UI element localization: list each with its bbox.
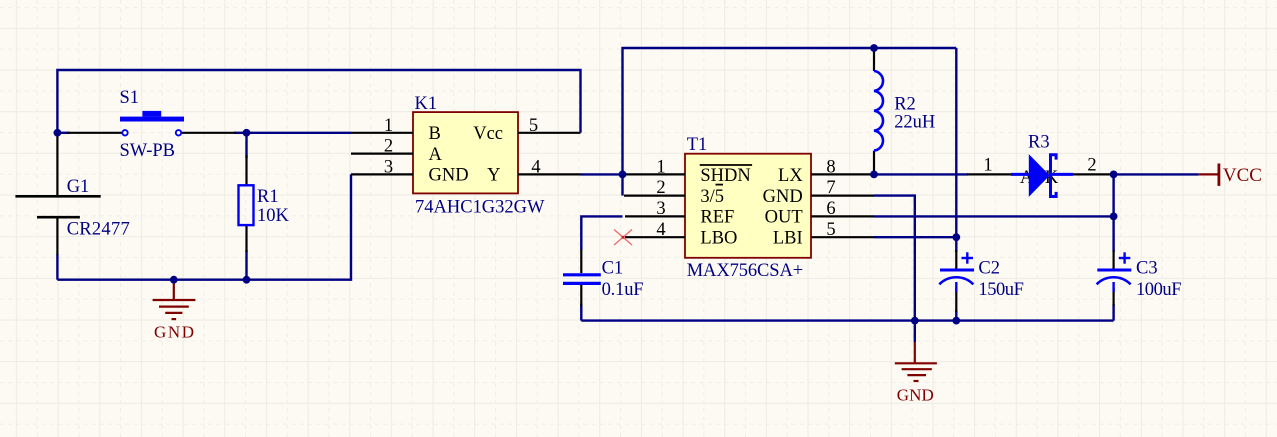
svg-text:SHDN: SHDN bbox=[700, 166, 750, 186]
no-ERC marker on T1 pin 4 bbox=[614, 230, 632, 246]
svg-text:REF: REF bbox=[700, 208, 734, 228]
svg-text:2: 2 bbox=[656, 178, 665, 198]
battery G1 pin top bbox=[56, 134, 58, 195]
diode R3 cathode bar with schottky hooks bbox=[1051, 155, 1057, 197]
svg-text:S1: S1 bbox=[120, 88, 140, 108]
capacitor C2 stub below arc bbox=[955, 282, 957, 292]
svg-text:SW-PB: SW-PB bbox=[120, 141, 176, 161]
svg-text:LBI: LBI bbox=[773, 229, 803, 249]
svg-text:6: 6 bbox=[826, 199, 835, 219]
svg-text:22uH: 22uH bbox=[894, 113, 935, 133]
power port VCC bar bbox=[1199, 173, 1219, 175]
diode R3 pin 2 (cathode) bbox=[1050, 173, 1114, 175]
diode R3 pin 1 (anode) bbox=[967, 173, 1029, 175]
inductor R2 pin bottom bbox=[873, 151, 875, 175]
svg-text:3/5: 3/5 bbox=[700, 187, 724, 207]
wire C1 top from REF row bbox=[581, 216, 622, 250]
svg-text:2: 2 bbox=[384, 137, 393, 157]
wire C2 bottom to rail bbox=[955, 310, 957, 321]
switch S1 pins bbox=[67, 132, 122, 134]
svg-text:74AHC1G32GW: 74AHC1G32GW bbox=[415, 197, 545, 217]
IC T1 pin 4 bbox=[625, 236, 685, 238]
junction dot SHDN bbox=[619, 171, 627, 179]
svg-text:T1: T1 bbox=[687, 135, 708, 155]
capacitor C3 pin bottom bbox=[1112, 288, 1114, 306]
IC K1 pin 4 bbox=[518, 173, 581, 175]
capacitor C3 plus sign bbox=[1119, 257, 1131, 259]
svg-text:R2: R2 bbox=[894, 95, 916, 115]
capacitor C2 plus sign bbox=[962, 257, 974, 259]
IC T1 pin 1 bbox=[624, 173, 685, 175]
IC T1 pin 6 bbox=[811, 215, 874, 217]
svg-text:1: 1 bbox=[656, 157, 665, 177]
capacitor C3 top plate bbox=[1097, 269, 1131, 272]
junction dot diode cathode bbox=[1110, 171, 1118, 179]
junction dot GND1 bbox=[170, 276, 178, 284]
IC T1 pin 7 bbox=[811, 195, 874, 197]
svg-text:GND: GND bbox=[763, 187, 803, 207]
IC T1 pin 2 bbox=[624, 195, 685, 197]
inductor R2 pin top bbox=[873, 48, 875, 71]
svg-text:GND: GND bbox=[897, 386, 934, 405]
resistor R1 body bbox=[239, 185, 254, 225]
svg-text:1: 1 bbox=[384, 116, 393, 136]
wire OUT junction down to C3 bbox=[1112, 216, 1114, 252]
capacitor C2 pin bottom bbox=[955, 288, 957, 312]
ground GND1 bars bbox=[153, 299, 196, 301]
wire S1 junction to K1 pin 1 bbox=[247, 132, 352, 134]
junction dot R1 bottom bbox=[243, 276, 251, 284]
svg-text:0.1uF: 0.1uF bbox=[602, 280, 644, 300]
resistor R1 pins bbox=[245, 155, 247, 185]
junction dot C2 rail bbox=[952, 317, 960, 325]
svg-text:2: 2 bbox=[1087, 156, 1096, 176]
svg-text:5: 5 bbox=[529, 116, 538, 136]
wire diode cathode row to VCC bbox=[1114, 173, 1199, 175]
capacitor C1 plates bbox=[563, 273, 601, 276]
IC T1 pin 8 bbox=[811, 173, 874, 175]
capacitor C3 pin top bbox=[1112, 250, 1114, 269]
junction dot LBI / C2 bbox=[952, 233, 960, 241]
ground GND1 stem bbox=[173, 281, 175, 300]
capacitor C3 stub below arc bbox=[1112, 282, 1114, 292]
wire right vertical from top rail to C2 bbox=[955, 48, 957, 252]
diode R3 triangle bbox=[1029, 154, 1050, 197]
svg-text:GND: GND bbox=[429, 166, 469, 186]
wire top-left loop from K1 pin5 to battery row bbox=[57, 70, 580, 133]
svg-text:5: 5 bbox=[826, 220, 835, 240]
IC K1 pin 3 bbox=[351, 173, 413, 175]
wire C1 bottom to rail bbox=[580, 304, 582, 321]
IC K1 pin 5 bbox=[518, 132, 581, 134]
wire top rail bbox=[623, 48, 957, 196]
svg-text:10K: 10K bbox=[257, 206, 290, 226]
svg-text:Y: Y bbox=[487, 166, 500, 186]
wire C3 bottom to rail bbox=[1112, 304, 1114, 321]
svg-text:4: 4 bbox=[531, 157, 540, 177]
junction dot R2 bottom / LX bbox=[870, 171, 878, 179]
svg-text:Vcc: Vcc bbox=[473, 124, 503, 144]
diode R3 symbol lines bbox=[1011, 173, 1029, 176]
capacitor C1 pin top bbox=[580, 250, 582, 273]
svg-text:VCC: VCC bbox=[1223, 165, 1262, 186]
svg-text:R1: R1 bbox=[257, 187, 279, 207]
ground GND2 stem bbox=[914, 342, 916, 363]
wire battery row: junction to S1 left terminal bbox=[57, 132, 70, 134]
svg-text:7: 7 bbox=[826, 178, 835, 198]
svg-text:3: 3 bbox=[656, 199, 665, 219]
wire OUT row bbox=[874, 215, 1114, 217]
wire R1 bottom to rail bbox=[245, 250, 247, 280]
capacitor C3 curved plate bbox=[1097, 277, 1131, 284]
ground GND2 bars bbox=[895, 362, 937, 364]
wire T1 GND pin to GND rail bbox=[874, 196, 915, 321]
svg-text:A: A bbox=[429, 145, 443, 165]
svg-text:K1: K1 bbox=[415, 94, 438, 114]
IC K1 pin 1 bbox=[351, 132, 413, 134]
svg-text:LX: LX bbox=[778, 166, 803, 186]
battery G1 plates bbox=[15, 195, 100, 198]
battery G1 pin bottom bbox=[56, 218, 58, 255]
IC T1 body bbox=[685, 154, 811, 258]
svg-text:C2: C2 bbox=[978, 259, 1000, 279]
switch S1 bar bbox=[120, 117, 184, 122]
switch S1 terminal circles bbox=[122, 130, 127, 135]
junction dot OUT bbox=[1110, 213, 1118, 221]
wire LX row to diode anode bbox=[874, 173, 968, 175]
wire K1 pin4 to T1 SHDN junction bbox=[581, 173, 623, 175]
wire left bottom rail bbox=[57, 174, 351, 279]
wire battery negative to left bottom rail bbox=[56, 254, 58, 280]
wire bottom rail bbox=[581, 319, 1113, 321]
junction dot battery top bbox=[54, 129, 62, 137]
wire LBI row bbox=[874, 236, 956, 238]
junction dot R2 top bbox=[870, 44, 878, 52]
switch S1 button bump bbox=[142, 111, 161, 117]
inductor R2 arcs bbox=[874, 71, 883, 151]
junction dot R1 top bbox=[243, 129, 251, 137]
svg-text:B: B bbox=[429, 124, 441, 144]
svg-text:R3: R3 bbox=[1028, 133, 1050, 153]
svg-text:150uF: 150uF bbox=[978, 280, 1024, 300]
capacitor C2 pin top bbox=[955, 250, 957, 269]
svg-text:OUT: OUT bbox=[765, 208, 803, 228]
svg-text:1: 1 bbox=[983, 156, 992, 176]
svg-text:8: 8 bbox=[826, 157, 835, 177]
IC K1 pin 2 bbox=[351, 153, 413, 155]
junction dot GND2 rail bbox=[911, 317, 919, 325]
svg-text:3: 3 bbox=[384, 157, 393, 177]
IC K1 body bbox=[413, 112, 518, 193]
svg-text:4: 4 bbox=[656, 220, 665, 240]
capacitor C2 curved plate bbox=[939, 277, 973, 284]
svg-text:LBO: LBO bbox=[700, 229, 737, 249]
svg-text:C3: C3 bbox=[1136, 259, 1158, 279]
capacitor C1 pin bottom bbox=[580, 285, 582, 307]
wire diode junction down to OUT row bbox=[1112, 174, 1114, 216]
svg-text:G1: G1 bbox=[67, 177, 90, 197]
svg-text:CR2477: CR2477 bbox=[67, 220, 130, 240]
svg-text:GND: GND bbox=[154, 323, 194, 342]
svg-text:100uF: 100uF bbox=[1136, 280, 1182, 300]
capacitor C2 top plate bbox=[940, 269, 974, 272]
svg-text:C1: C1 bbox=[602, 259, 624, 279]
svg-text:MAX756CSA+: MAX756CSA+ bbox=[687, 261, 804, 281]
IC T1 pin 5 bbox=[811, 236, 874, 238]
wire S1 right terminal to R1 junction bbox=[234, 132, 247, 134]
IC T1 pin 3 bbox=[625, 215, 685, 217]
wire R1 top bbox=[245, 133, 247, 158]
